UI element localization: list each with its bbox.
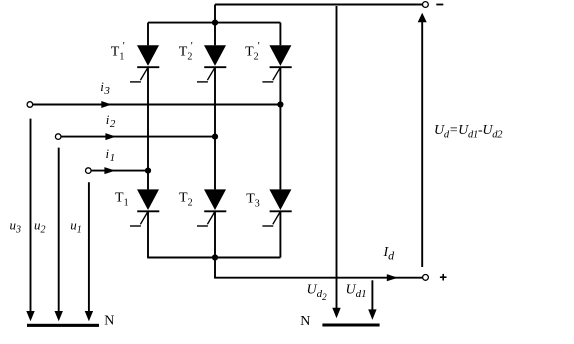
wire u2 voltage arrow line [58,148,60,312]
wire bottom bus to positive terminal [215,258,423,278]
arrow Ud2 down [332,308,340,319]
node dot phase2 to column2 [212,134,218,140]
svg-text:N: N [104,313,114,328]
arrow i2 [105,133,116,140]
node N bar right [322,324,379,327]
arrow i1 [104,167,115,174]
wire u1 voltage arrow line [88,182,90,311]
wire top dc bus to negative terminal [215,4,422,6]
wire column1 middle segment [147,67,149,189]
svg-text:N: N [300,314,310,329]
wire phase i2 [61,136,215,138]
wire column1 top segment [147,23,149,46]
wire drop from top line to anode bus [214,5,216,23]
plus sign [440,274,447,281]
arrow Ud1 down [368,309,376,320]
arrow u2 down [55,311,63,321]
arrow Ud up [418,13,427,23]
svg-text:Id: Id [383,245,396,262]
node dot phase1 to column1 [145,168,151,174]
node N bar left [27,324,99,327]
arrow u1 down [85,311,93,321]
arrow u3 down [26,311,34,321]
wire column2 middle segment [214,67,216,189]
minus sign [436,4,443,6]
thyristor T3 [262,189,291,226]
thyristor T1 [130,189,159,226]
node junction dot top bus [212,20,218,26]
thyristor T1' [130,45,159,82]
wire phase i3 [33,104,281,106]
arrow Id on positive lead [387,274,398,281]
svg-text:': ' [191,40,193,52]
wire u3 voltage arrow line [30,119,32,312]
wire column2 top segment [214,23,216,46]
wire column3 top segment [279,23,281,46]
wire phase i1 [91,170,148,172]
node junction dot bottom bus [212,254,218,260]
svg-text:': ' [123,40,125,52]
wire column3 bottom segment [279,211,281,257]
terminal circle positive [423,275,429,281]
wire lower cathode bus [147,257,280,259]
thyristor T2' (middle upper) [197,45,226,82]
terminal circle phase 1 [86,168,92,174]
wire Ud measurement line [421,22,423,267]
wire Ud1 measurement line [371,280,373,309]
arrow i3 [101,101,111,108]
terminal circle phase 3 [27,102,33,108]
thyristor T2' (right upper) [262,45,291,82]
wire column2 bottom segment [214,211,216,257]
terminal circle phase 2 [55,134,61,140]
wire column3 middle segment [279,67,281,189]
thyristor T2 [197,189,226,226]
wire Ud2 measurement line [336,6,338,308]
svg-text:': ' [258,40,260,52]
wire column1 bottom segment [147,211,149,257]
wire upper anode bus [148,22,280,24]
node dot phase3 to column3 [277,101,283,107]
terminal circle negative [423,2,429,8]
